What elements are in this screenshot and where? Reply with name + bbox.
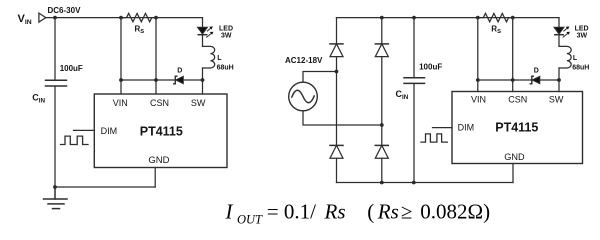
node bottom rail CIN (412, 181, 416, 185)
label 100uF left (60, 64, 83, 73)
wire bridge left leg upper (336, 18, 338, 44)
svg-text:Rs: Rs (377, 199, 399, 223)
label Vin (18, 13, 32, 26)
svg-text:0.082Ω): 0.082Ω) (420, 199, 490, 223)
node bottom rail bridge right leg (380, 181, 384, 185)
schottky diode D right bar (530, 76, 533, 84)
svg-text:≥: ≥ (401, 199, 413, 223)
LED diode right (554, 27, 564, 34)
wire LED drop (202, 18, 204, 28)
wire top rail left (46, 17, 203, 19)
node SW junction (201, 78, 205, 82)
diode bridge D1 body (330, 44, 343, 57)
wire LED drop right (558, 18, 560, 28)
label PT4115 right (495, 121, 538, 135)
IC U1 PT4115 left box (94, 94, 227, 168)
svg-text:DIM: DIM (101, 126, 118, 136)
resistor Rs left (121, 13, 156, 21)
svg-text:D: D (177, 67, 182, 74)
svg-text:OUT: OUT (237, 212, 263, 226)
svg-text:PT4115: PT4115 (140, 124, 183, 138)
AC sine wave (292, 90, 314, 102)
wire CIN right lower (413, 84, 415, 182)
pin label VIN left (113, 98, 128, 108)
svg-text:D: D (534, 67, 539, 74)
wire bottom rail left (55, 186, 155, 188)
svg-text:L: L (573, 55, 578, 62)
svg-text:CSN: CSN (150, 98, 169, 108)
diode bridge D2 bar (375, 43, 388, 45)
pin label VIN right (471, 95, 486, 105)
wire LED to inductor right (558, 35, 560, 46)
svg-text:3W: 3W (221, 32, 232, 39)
node bridge right top (380, 16, 384, 20)
pin label CSN right (508, 95, 527, 105)
node VIN-wire junction (119, 78, 123, 82)
label PT4115 left (140, 124, 183, 138)
pin label DIM left (101, 126, 118, 136)
label D right (534, 67, 539, 74)
LED diode left (198, 27, 208, 34)
svg-text:PT4115: PT4115 (495, 121, 538, 135)
node AC bottom junction (380, 123, 384, 127)
label L right (572, 55, 589, 71)
svg-text:I: I (225, 199, 234, 223)
label D left (177, 67, 182, 74)
node Rs right junction (154, 16, 158, 20)
wire bridge right leg upper (381, 18, 383, 44)
wire bridge right leg lower (381, 158, 383, 182)
wire GND pin right (512, 164, 514, 183)
svg-text:VIN: VIN (113, 98, 128, 108)
wire AC bottom (303, 111, 382, 125)
svg-text:(: ( (367, 199, 374, 223)
wire top rail right (337, 17, 560, 19)
wire VIN column right (477, 18, 479, 92)
schottky diode D left body (176, 76, 184, 83)
svg-text:GND: GND (504, 152, 525, 162)
capacitor CIN right (404, 78, 425, 84)
svg-text:68uH: 68uH (572, 64, 589, 71)
pin label GND right (504, 152, 525, 162)
label LED right (575, 25, 589, 39)
label L left (217, 55, 234, 71)
IC U2 PT4115 right box (452, 92, 583, 164)
wire CSN-SW rail (121, 79, 203, 81)
wire DIM input left (74, 129, 95, 131)
wire LED to inductor (202, 35, 204, 46)
node AC top junction (335, 70, 339, 74)
wire CSN-SW rail right (478, 79, 559, 81)
svg-text:100uF: 100uF (419, 63, 442, 72)
wire CSN column right (512, 18, 514, 92)
wire VIN column (120, 18, 122, 94)
pin label CSN left (150, 98, 169, 108)
wire inductor to SW right (558, 68, 560, 92)
wire bottom rail right (337, 182, 514, 184)
label CIN right (396, 89, 409, 101)
label Rs left (135, 24, 145, 35)
wire AC top (303, 72, 337, 83)
wire CSN column (155, 18, 157, 94)
svg-text:3W: 3W (577, 32, 588, 39)
svg-text:SW: SW (191, 98, 206, 108)
LED cathode bar left (198, 34, 206, 36)
wire DIM input right (433, 127, 453, 129)
svg-text:AC12-18V: AC12-18V (285, 56, 323, 65)
wire CIN branch lower (54, 87, 56, 187)
svg-text:DC6-30V: DC6-30V (48, 6, 82, 15)
inductor L right (559, 46, 571, 68)
pin label GND left (148, 155, 169, 166)
AC source (289, 82, 318, 111)
diode bridge D4 bar (375, 144, 388, 146)
node SW junction right (557, 78, 561, 82)
wire GND pin left (154, 168, 156, 188)
node Rs left junction (119, 16, 123, 20)
LED arrows right (563, 27, 570, 38)
svg-text:VIN: VIN (471, 95, 486, 105)
LED arrows left (207, 27, 214, 38)
input terminal triangle (39, 13, 46, 22)
diode bridge D4 body (375, 145, 388, 158)
label Rs right (491, 24, 501, 35)
label 100uF right (419, 63, 442, 72)
wire CIN right upper (413, 18, 415, 77)
node VIN junction right (476, 78, 480, 82)
PWM waveform right (421, 134, 447, 142)
svg-text:CSN: CSN (508, 95, 527, 105)
LED cathode bar right (555, 34, 563, 36)
node CSN-wire junction (154, 78, 158, 82)
inductor L left (203, 46, 215, 68)
node Rs right-ckt left junction (476, 16, 480, 20)
capacitor CIN left (46, 80, 67, 86)
label LED left (219, 25, 233, 39)
svg-text:= 0.1/: = 0.1/ (267, 199, 316, 223)
diode bridge D3 bar (330, 144, 343, 146)
wire bridge left leg lower (336, 158, 338, 182)
PWM waveform left (61, 136, 89, 144)
wire CIN branch upper (54, 18, 56, 80)
svg-text:SW: SW (549, 95, 564, 105)
svg-text:Rs: Rs (324, 199, 346, 223)
pin label SW left (191, 98, 206, 108)
wire bridge left leg middle (336, 57, 338, 146)
diode bridge D2 body (375, 44, 388, 57)
node Rs right-ckt right junction (511, 16, 515, 20)
wire bridge right leg middle (381, 57, 383, 146)
diode bridge D3 body (330, 145, 343, 158)
label AC12-18V (285, 56, 323, 65)
node CSN junction right (511, 78, 515, 82)
wire inductor to SW node (202, 68, 204, 94)
schottky diode D left bar (174, 76, 177, 84)
schottky diode D right body (532, 76, 540, 83)
svg-text:DIM: DIM (458, 122, 475, 132)
pin label SW right (549, 95, 564, 105)
formula Iout (225, 199, 491, 226)
node input junction (53, 16, 57, 20)
diode bridge D1 bar (330, 43, 343, 45)
label DC6-30V (48, 6, 82, 15)
svg-text:100uF: 100uF (60, 64, 83, 73)
node CIN top right (412, 16, 416, 20)
svg-text:68uH: 68uH (217, 64, 234, 71)
svg-text:L: L (217, 55, 222, 62)
resistor Rs right (478, 13, 513, 21)
node ground junction (53, 185, 57, 189)
label CIN left (32, 93, 45, 105)
pin label DIM right (458, 122, 475, 132)
ground symbol (44, 187, 68, 209)
svg-text:GND: GND (148, 155, 169, 166)
